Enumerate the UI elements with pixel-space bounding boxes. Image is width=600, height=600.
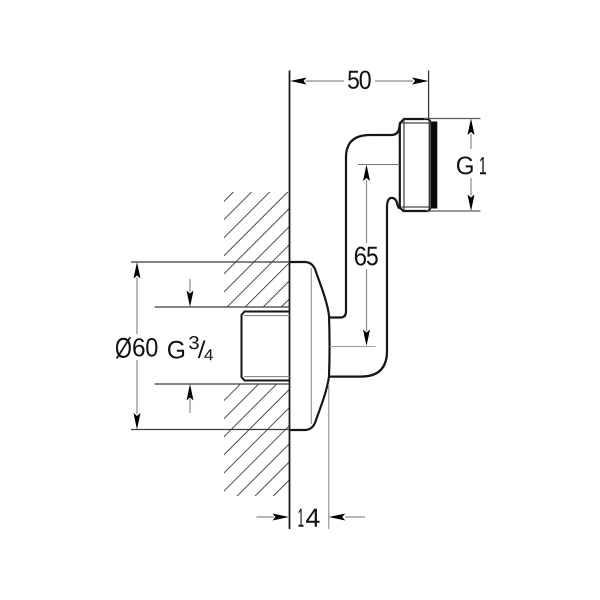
G1 thread black band (430, 122, 437, 209)
dimension 50: dimension line (306, 80, 414, 82)
dimension G1: bottom extension line (426, 210, 481, 212)
thread root line bottom (244, 376, 290, 378)
dimension Ø60: bottom extension line (131, 429, 290, 431)
wall hole top edge / G3/4 top extension line (155, 306, 290, 308)
dimension G3/4: label denominator 4 (204, 349, 213, 360)
dimension 50: left arrow (290, 78, 307, 85)
dimension G3/4: bottom arrow (187, 384, 194, 401)
dimension G1: bottom arrow (468, 195, 475, 212)
dimension 14: right arrow (329, 514, 346, 521)
dimension G1: label (457, 157, 486, 175)
dimension 65: label (355, 247, 378, 266)
pipe lower outer contour: stub bottom, bottom elbow, right edge, shoulder hump (329, 198, 400, 377)
dimension G3/4: bottom arrow stem (189, 399, 191, 413)
dimension 14: left stem (257, 516, 275, 518)
flange (wall escutcheon) outline (290, 262, 330, 430)
dimension 14: right stem (345, 516, 365, 518)
dimension G1: dimension line (470, 134, 472, 196)
thread root line top (244, 315, 290, 317)
flange contour line (310, 268, 312, 424)
dimension G3/4: top arrow stem (189, 279, 191, 292)
G1 connector chamfer line top (402, 122, 430, 124)
dimension Ø60: top arrow (134, 262, 141, 279)
dimension G1: top extension line (424, 118, 481, 120)
dimension 65: bottom arrow (363, 330, 370, 347)
G3/4 threaded pipe outline (242, 312, 290, 381)
dimension G3/4: label G (168, 341, 184, 359)
pipe upper outer contour: stub top, left edge, top elbow, top edge (329, 124, 400, 318)
G1 connector face ring line (403, 120, 405, 211)
wall surface line / extension line for 50 and 14 (289, 71, 291, 530)
dimension 14: right extension line (328, 386, 330, 529)
dimension 50: right arrow (412, 78, 429, 85)
dimension 50: right extension line (428, 71, 430, 120)
dimension Ø60: bottom arrow (134, 413, 141, 430)
dimension 50: label (348, 71, 371, 90)
dimension 65: top extension line (358, 164, 400, 166)
wall hatching lower section (224, 385, 290, 497)
dimension G1: top arrow (468, 119, 475, 136)
G1 connector outline (400, 119, 431, 211)
dimension G3/4: top arrow (187, 291, 194, 308)
dimension 14: label (299, 509, 320, 527)
dimension 65: bottom extension line (330, 346, 376, 348)
G1 connector body right edge (428, 120, 430, 210)
dimension G3/4: fraction slash (199, 341, 205, 359)
dimension 65: dimension line (366, 180, 368, 331)
dimension G3/4: label numerator 3 (189, 336, 199, 349)
dimension Ø60: label (116, 337, 158, 358)
dimension Ø60: top extension line (131, 261, 290, 263)
wall hatching upper section (224, 192, 290, 307)
wall hole bottom edge / G3/4 bottom extension line (155, 383, 290, 385)
dimension 14: left arrow (273, 514, 290, 521)
G1 connector chamfer line bottom (402, 206, 430, 208)
dimension Ø60: dimension line (136, 278, 138, 415)
dimension 65: top arrow (363, 165, 370, 182)
